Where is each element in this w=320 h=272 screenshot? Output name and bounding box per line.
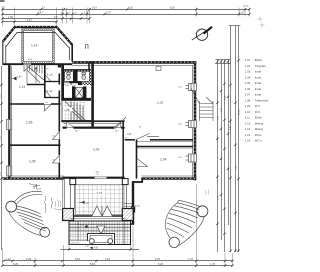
- svg-text:20 2: 20 2: [75, 131, 79, 133]
- bottom wall east section (south): [132, 176, 196, 183]
- svg-text:90: 90: [47, 69, 49, 71]
- wall 1.06/1.05 divider: [9, 144, 60, 146]
- svg-text:1,04: 1,04: [245, 75, 251, 79]
- svg-text:1,50: 1,50: [178, 124, 182, 126]
- svg-text:1,10: 1,10: [245, 110, 251, 114]
- svg-text:1,02: 1,02: [245, 64, 251, 68]
- door leaf 1.02 left: [67, 122, 73, 128]
- curved garden stair left: [6, 191, 50, 237]
- door swing 1.13: [45, 75, 50, 81]
- svg-text:Iroda: Iroda: [255, 81, 262, 85]
- svg-text:1,13: 1,13: [47, 73, 53, 77]
- svg-text:90: 90: [125, 138, 127, 140]
- framed note under steps: [70, 241, 90, 245]
- wc cubicle 1.09: [65, 72, 74, 82]
- door leaf 1.05 right: [53, 155, 60, 163]
- left dim rotated labels: [0, 93, 2, 176]
- exterior side steps east: [191, 88, 213, 121]
- top band curves: [179, 200, 201, 206]
- svg-text:1,06: 1,06: [245, 87, 251, 91]
- side annex wall east of porch (wc 1.15): [127, 182, 135, 225]
- svg-text:±0,00: ±0,00: [36, 189, 42, 191]
- north symbol: [192, 27, 212, 41]
- wc partition T wall: [73, 70, 77, 83]
- svg-text:Iroda: Iroda: [255, 70, 262, 74]
- svg-text:WC e.: WC e.: [255, 139, 263, 143]
- wc block checker floor band (1.09 / 1.10): [64, 70, 91, 86]
- door swing 1.12: [45, 90, 50, 97]
- wc block left wall dark: [61, 64, 64, 99]
- level marker at bottom dim: [85, 246, 93, 249]
- svg-text:6,20: 6,20: [170, 7, 175, 10]
- door leaf 1.06 right: [53, 132, 60, 140]
- side step box with level mark: [124, 204, 133, 215]
- svg-text:1,50: 1,50: [17, 77, 22, 79]
- svg-text:1,12: 1,12: [47, 89, 53, 93]
- svg-text:5,20: 5,20: [13, 262, 19, 266]
- svg-text:Iroda: Iroda: [255, 93, 262, 97]
- plant marks left of porch: [54, 200, 63, 210]
- svg-text:1,12: 1,12: [245, 121, 251, 125]
- svg-text:1,05: 1,05: [245, 81, 251, 85]
- wc block wall y70: [61, 69, 91, 71]
- svg-text:1,13: 1,13: [245, 127, 251, 131]
- svg-text:Tárgyaló: Tárgyaló: [255, 64, 266, 68]
- svg-text:4,75: 4,75: [155, 257, 161, 261]
- main right wall (east): [193, 61, 196, 180]
- dimension line left group: [1, 66, 3, 250]
- svg-text:1,20: 1,20: [6, 257, 12, 261]
- porch left top block: [70, 179, 76, 185]
- svg-text:1,11: 1,11: [245, 116, 251, 120]
- svg-text:20 2: 20 2: [115, 131, 119, 133]
- svg-text:3,47: 3,47: [38, 12, 43, 15]
- svg-text:90: 90: [139, 127, 141, 129]
- inner light shaft rectangle in bay: [22, 29, 54, 64]
- treads fan: [174, 206, 199, 214]
- dimension line top group: [2, 10, 249, 22]
- main top wall (north, hatched): [72, 62, 196, 65]
- svg-text:4,67: 4,67: [94, 247, 99, 249]
- svg-text:1,70: 1,70: [210, 262, 216, 266]
- door leaf hall to 1.07: [115, 117, 127, 129]
- wc cubicle 1.10: [77, 72, 89, 82]
- entrance exterior steps block: [69, 221, 131, 245]
- teakonyha 1.08 tiled floor: [64, 101, 86, 121]
- right dim ticks: [216, 59, 239, 252]
- newel circle right B: [169, 237, 179, 247]
- level marker +1,50 in 1.11: [11, 77, 22, 81]
- svg-text:1,35: 1,35: [8, 16, 13, 19]
- svg-text:1,50: 1,50: [178, 157, 182, 159]
- entrance double door leaves: [92, 206, 113, 216]
- dimension line right group: [215, 26, 240, 253]
- svg-text:1,50: 1,50: [178, 87, 182, 89]
- wall 1.03/1.04 divider: [136, 140, 138, 179]
- chimney mark above north wall: [86, 45, 89, 49]
- bay window outer wall (room 1.14): [3, 27, 72, 65]
- svg-text:1,11: 1,11: [19, 85, 25, 89]
- door size note 30/2: [96, 172, 100, 176]
- svg-text:1,02: 1,02: [93, 148, 100, 152]
- svg-text:4,20: 4,20: [128, 7, 133, 10]
- window west upper: [6, 119, 13, 130]
- tiny door size notes: [46, 69, 182, 162]
- basement stair over 1.08: [65, 102, 86, 122]
- bottom extension lines: [3, 184, 233, 267]
- svg-text:Pince: Pince: [255, 133, 262, 137]
- corridor west wall: [58, 64, 60, 179]
- room label 1.10: [72, 83, 78, 87]
- wc block right wall: [91, 62, 94, 128]
- svg-text:1,01: 1,01: [96, 191, 102, 195]
- main left wall (west): [9, 64, 11, 179]
- stair hall bottom wall: [27, 84, 45, 86]
- corridor corner nub: [58, 64, 61, 68]
- svg-text:±0,38: ±0,38: [135, 206, 141, 208]
- left stringer: [165, 203, 177, 238]
- porch left pillar: [63, 209, 74, 221]
- top extension lines: [3, 8, 250, 27]
- window 1.04 east: [186, 154, 198, 163]
- svg-text:Mérleg: Mérleg: [255, 121, 264, 125]
- room 1.02 bottom wall with porch door gap: [63, 177, 125, 179]
- svg-text:5,87: 5,87: [75, 257, 81, 261]
- small shrub marks right of plan: [205, 189, 209, 195]
- svg-text:12: 12: [97, 174, 99, 176]
- svg-text:1,08: 1,08: [64, 108, 70, 112]
- svg-text:1,07: 1,07: [245, 93, 251, 97]
- stair main (1.11 upper flight): [27, 64, 45, 85]
- newel circle right A: [197, 206, 208, 217]
- wall 1.11/1.06 divider: [9, 103, 44, 105]
- porch left colonnade lines: [70, 185, 74, 210]
- wc block mid wall y99: [61, 98, 91, 101]
- svg-text:90: 90: [53, 136, 55, 138]
- door leaf 1.06 top: [44, 105, 51, 112]
- svg-text:Teakonyha: Teakonyha: [255, 98, 269, 102]
- svg-text:1,03: 1,03: [127, 133, 132, 136]
- garden squiggle left of entry: [29, 184, 53, 214]
- room label 1.08: [64, 107, 72, 112]
- svg-text:1,70: 1,70: [188, 257, 194, 261]
- svg-text:Iroda: Iroda: [255, 75, 262, 79]
- wc block top stub: [88, 62, 90, 70]
- 1.08 left wall thin: [61, 101, 63, 121]
- svg-text:5,81: 5,81: [90, 262, 96, 266]
- level marker 0,45 in porch: [80, 201, 91, 205]
- bottom landing with bollards: [88, 234, 115, 245]
- porch right colonnade lines: [122, 185, 126, 210]
- svg-text:2,02: 2,02: [239, 12, 244, 15]
- top ticks: [1, 8, 250, 23]
- svg-text:4,47: 4,47: [27, 19, 32, 22]
- svg-text:90: 90: [53, 160, 55, 162]
- stair treads fan: [16, 206, 41, 214]
- svg-text:1,05: 1,05: [29, 160, 36, 164]
- stair top walkway curves: [15, 191, 43, 201]
- svg-text:16,90: 16,90: [239, 109, 241, 115]
- svg-text:1,15: 1,15: [245, 139, 251, 143]
- newel circle left A: [6, 201, 17, 212]
- svg-text:Előtér: Előtér: [255, 58, 262, 62]
- window east upper: [186, 83, 198, 91]
- curved garden stair right: [165, 200, 208, 247]
- svg-text:Iroda: Iroda: [255, 87, 262, 91]
- svg-text:1,10: 1,10: [105, 257, 111, 261]
- level marker +0,45 on steps: [80, 225, 88, 229]
- svg-text:90 2m: 90 2m: [243, 6, 249, 8]
- svg-text:1,20: 1,20: [84, 12, 89, 15]
- porch right pillar: [122, 209, 133, 221]
- window east lower: [186, 120, 198, 128]
- bay sill note 30d: [28, 59, 34, 64]
- door leaf bay/1.11: [24, 65, 31, 72]
- svg-text:4,29: 4,29: [26, 257, 32, 261]
- svg-text:1,05×2,10: 1,05×2,10: [71, 242, 81, 245]
- right dim rotated labels: [218, 95, 241, 200]
- svg-text:Mérleg: Mérleg: [255, 127, 264, 131]
- door leaf hall to 1.03: [136, 134, 159, 140]
- svg-text:1,09: 1,09: [245, 104, 251, 108]
- svg-text:W.C.: W.C.: [255, 110, 261, 114]
- bottom wall west section (south): [3, 176, 64, 179]
- door size notes 1.02 top: [75, 131, 119, 133]
- corner scan blob top-left: [0, 0, 5, 2]
- svg-text:1,03: 1,03: [245, 70, 251, 74]
- room 1.02 east wall: [122, 121, 124, 180]
- hall floor lines: [63, 123, 125, 126]
- outer boundary lower right: [179, 217, 204, 246]
- svg-text:16,9: 16,9: [92, 7, 97, 10]
- room label 1.01: [96, 190, 106, 195]
- door leaf 1.03 to 1.04: [137, 159, 148, 167]
- survey cross marks top right: [258, 17, 265, 28]
- newel circle left B: [40, 227, 50, 237]
- bottom ticks: [1, 248, 233, 267]
- shower side walls: [72, 86, 75, 100]
- porch left outer boundary: [63, 179, 65, 221]
- svg-text:1,06: 1,06: [26, 121, 33, 125]
- door leaf 1.02 right: [114, 122, 120, 128]
- direction triangle on steps: [97, 226, 105, 234]
- room 1.02 top wall: [63, 127, 125, 129]
- dimension line bottom group: [2, 250, 232, 266]
- porch floor tiles (room 1.01): [76, 185, 125, 215]
- room label 1.09: [64, 83, 70, 87]
- svg-text:Előtér: Előtér: [255, 116, 262, 120]
- bay bottom wall: [3, 63, 72, 65]
- top dim labels: [2, 6, 249, 23]
- legend room list: [245, 58, 269, 142]
- svg-text:W.C.: W.C.: [255, 104, 261, 108]
- bottom dim labels: [6, 247, 216, 266]
- stair outer stringer: [9, 212, 40, 236]
- porch bottom wall with entrance opening: [74, 215, 124, 217]
- svg-text:5,20: 5,20: [158, 262, 164, 266]
- svg-text:1,14: 1,14: [245, 133, 251, 137]
- svg-text:1,04: 1,04: [160, 158, 167, 162]
- wall 1.07 bottom east part / 1.03 strip top: [125, 139, 193, 141]
- shower box with X: [75, 87, 83, 97]
- hall top wall (south of 1.07 west part): [63, 120, 125, 122]
- window west lower: [6, 166, 13, 177]
- svg-text:90: 90: [46, 102, 48, 104]
- svg-text:2,75: 2,75: [106, 12, 111, 15]
- svg-text:1,08: 1,08: [245, 98, 251, 102]
- svg-text:1,01: 1,01: [245, 58, 251, 62]
- svg-text:1,07: 1,07: [157, 101, 164, 105]
- wall pair above 1.04: [137, 145, 194, 147]
- wall 1.13/1.12 block: [45, 64, 60, 98]
- svg-text:1,14: 1,14: [31, 44, 38, 48]
- porch right top block: [122, 179, 128, 185]
- roof drain box on north wall: [156, 67, 161, 71]
- wc block bottom wall: [61, 120, 91, 122]
